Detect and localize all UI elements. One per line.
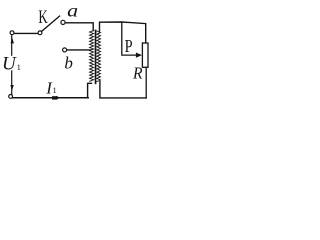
label b bbox=[64, 53, 73, 72]
label I bbox=[45, 78, 56, 97]
node input terminal top bbox=[10, 31, 14, 35]
node contact b bbox=[63, 48, 67, 52]
voltage arrow U1 head down bbox=[10, 85, 14, 91]
node input terminal bottom bbox=[9, 95, 13, 99]
wire secondary bottom lead bbox=[100, 82, 146, 98]
transformer core bbox=[95, 30, 97, 85]
wire left vertical (U1 span) bbox=[11, 35, 13, 95]
voltage arrow U1 head up bbox=[11, 38, 15, 44]
transformer T1 primary winding bbox=[90, 31, 94, 82]
svg-text:1: 1 bbox=[53, 85, 57, 95]
label K bbox=[38, 8, 48, 28]
wire resistor bottom lead bbox=[145, 68, 147, 98]
current arrow I head bbox=[52, 96, 57, 99]
svg-text:P: P bbox=[125, 36, 133, 56]
wiper P lead bbox=[122, 23, 137, 55]
label a bbox=[67, 1, 78, 21]
svg-text:b: b bbox=[64, 53, 73, 72]
svg-text:a: a bbox=[67, 1, 78, 21]
label U1 bbox=[2, 54, 21, 75]
svg-text:R: R bbox=[132, 63, 143, 83]
label R bbox=[132, 63, 143, 83]
wire from a to transformer bbox=[65, 23, 93, 31]
wire bottom-left horizontal with I bbox=[13, 97, 89, 99]
switch K pivot bbox=[38, 31, 42, 35]
transformer T1 secondary winding bbox=[97, 31, 101, 82]
switch K blade bbox=[42, 16, 60, 31]
node contact a bbox=[61, 20, 65, 24]
wiper P arrowhead bbox=[136, 53, 142, 58]
svg-text:1: 1 bbox=[17, 62, 21, 72]
wire primary bottom lead bbox=[88, 83, 92, 97]
svg-text:U: U bbox=[2, 54, 17, 75]
wire from b to winding tap bbox=[67, 49, 90, 51]
wire secondary top lead bbox=[100, 22, 146, 43]
svg-text:K: K bbox=[38, 8, 48, 28]
wire top-left horizontal bbox=[14, 32, 38, 34]
resistor R body bbox=[142, 43, 148, 67]
